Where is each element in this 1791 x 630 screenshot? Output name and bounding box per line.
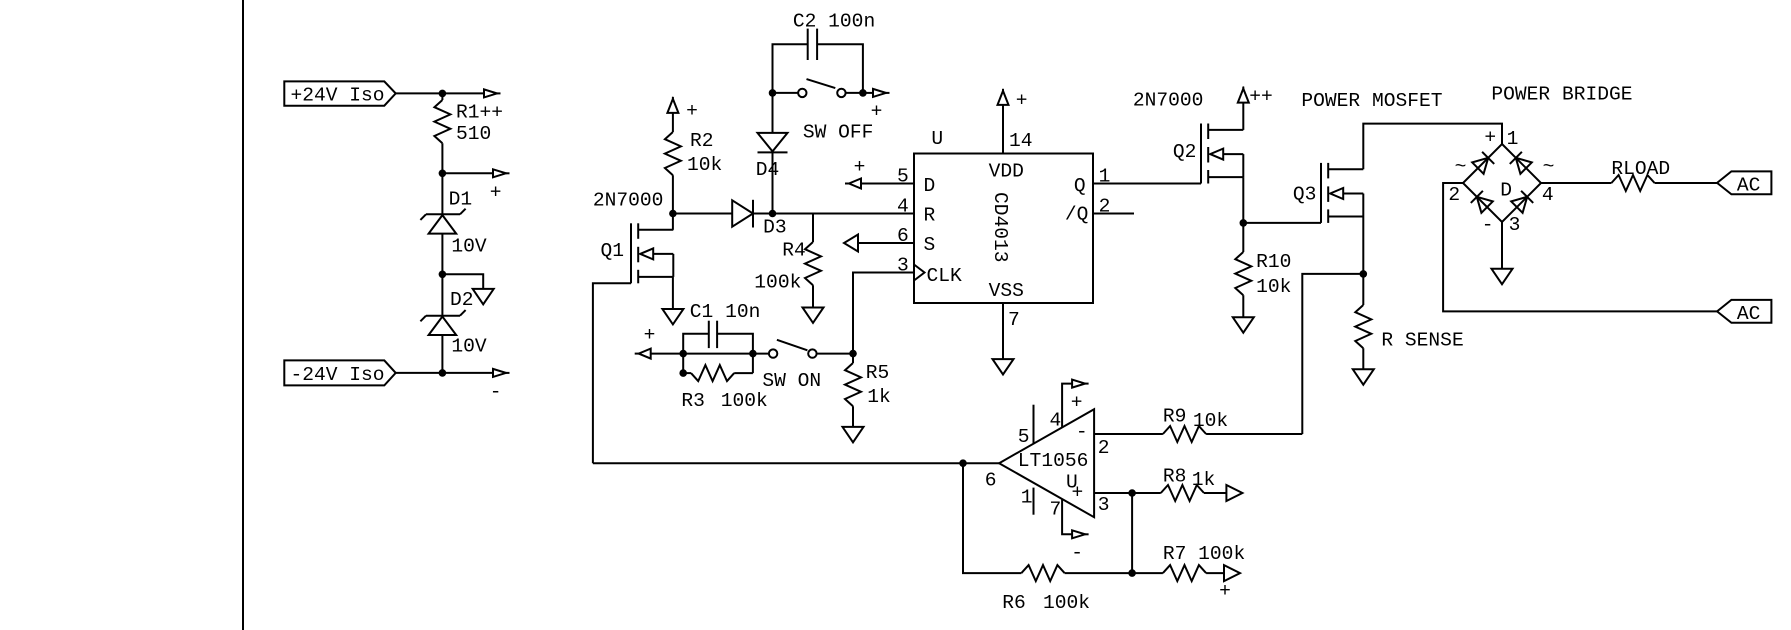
svg-text:7: 7: [1008, 309, 1020, 331]
label Q1: [601, 240, 625, 262]
resistor RLOAD: [1611, 175, 1654, 191]
label 1: [1099, 165, 1111, 187]
svg-text:U: U: [931, 128, 943, 150]
svg-text:5: 5: [897, 165, 909, 187]
label R7 100k: [1163, 543, 1245, 565]
svg-text:-: -: [490, 381, 502, 403]
svg-text:LT1056: LT1056: [1018, 450, 1089, 472]
label +: [1219, 580, 1231, 602]
label 10k: [1193, 410, 1228, 432]
wire: [1362, 217, 1364, 274]
wire: [1065, 572, 1133, 574]
resistor R SENSE: [1355, 305, 1371, 348]
svg-text:10k: 10k: [1193, 410, 1228, 432]
svg-text:+: +: [490, 181, 502, 203]
input arrow pin D: [845, 179, 861, 189]
svg-text:R1++: R1++: [456, 102, 503, 124]
wire: [1302, 274, 1363, 434]
wire pin 14: [1002, 105, 1004, 154]
label R6: [1002, 592, 1026, 614]
wire: [861, 183, 914, 185]
svg-text:R10: R10: [1256, 251, 1291, 273]
svg-text:-: -: [1071, 542, 1083, 564]
wire: [1243, 222, 1321, 224]
svg-text:10V: 10V: [451, 235, 487, 257]
power arrow: [493, 369, 510, 377]
label ~: [1543, 156, 1555, 178]
svg-text:+: +: [1016, 90, 1028, 112]
label D2: [450, 289, 474, 311]
svg-text:4: 4: [1050, 409, 1062, 431]
label 2N7000: [1133, 89, 1204, 111]
svg-text:+: +: [1071, 391, 1083, 413]
svg-text:/Q: /Q: [1065, 203, 1089, 225]
wire: [1242, 223, 1244, 252]
label R1++: [456, 102, 503, 124]
label +: [1072, 481, 1084, 503]
label +: [1016, 90, 1028, 112]
label +: [854, 156, 866, 178]
wire: [1206, 572, 1224, 574]
svg-text:SW ON: SW ON: [762, 370, 821, 392]
wire: [1242, 295, 1244, 317]
net label AC: [1717, 171, 1771, 196]
svg-text:RLOAD: RLOAD: [1611, 158, 1670, 180]
wire: [672, 175, 674, 230]
output arrow: [1226, 485, 1242, 501]
power arrow: [1072, 530, 1089, 538]
label R3: [681, 390, 705, 412]
clock wedge: [914, 265, 925, 281]
wire: [1501, 222, 1503, 269]
svg-text:S: S: [924, 234, 936, 256]
power arrow: [484, 89, 501, 97]
ground: [843, 427, 864, 442]
label D: [924, 175, 936, 197]
label RLOAD: [1611, 158, 1670, 180]
label 1k: [1192, 469, 1216, 491]
net label -24V Iso: [284, 360, 395, 385]
power arrow +: [998, 89, 1009, 105]
ground: [803, 308, 824, 323]
wire: [753, 213, 914, 215]
svg-text:-: -: [1076, 421, 1088, 443]
svg-text:C2 100n: C2 100n: [793, 10, 875, 32]
resistor R1: [434, 100, 450, 143]
power arrow: [873, 89, 890, 97]
resistor R10: [1235, 252, 1251, 295]
wire: [441, 234, 443, 316]
label -: [1071, 542, 1083, 564]
resistor R9: [1163, 426, 1206, 442]
svg-text:R: R: [924, 204, 936, 226]
label 100k: [754, 271, 801, 293]
wire: [396, 92, 484, 94]
svg-text:2: 2: [1098, 437, 1110, 459]
junction: [1240, 219, 1248, 227]
junction: [669, 210, 677, 218]
svg-text:510: 510: [456, 123, 491, 145]
svg-text:SW OFF: SW OFF: [803, 121, 874, 143]
power arrow: [493, 169, 510, 177]
op-amp U1 LT1056: [999, 409, 1094, 517]
resistor R5: [845, 363, 861, 406]
svg-text:D3: D3: [763, 216, 787, 238]
output arrow: [1224, 565, 1240, 581]
label 10V: [451, 335, 487, 357]
svg-text:7: 7: [1050, 498, 1062, 520]
label 7: [1008, 309, 1020, 331]
op-amp U CD4013 box: [914, 154, 1093, 304]
wire: [963, 463, 1021, 573]
svg-text:CLK: CLK: [927, 265, 963, 287]
svg-text:+: +: [1072, 481, 1084, 503]
svg-text:+: +: [1219, 580, 1231, 602]
net label +24V Iso: [284, 81, 395, 106]
label +: [686, 100, 698, 122]
svg-text:R7 100k: R7 100k: [1163, 543, 1245, 565]
bridge diode 4-1: [1510, 152, 1532, 174]
label +: [1071, 391, 1083, 413]
wire: [396, 372, 493, 374]
wire: [1242, 177, 1244, 223]
svg-text:VDD: VDD: [989, 160, 1024, 182]
switch SW ON: [769, 340, 853, 358]
label 100k: [721, 390, 768, 412]
label 510: [456, 123, 491, 145]
label +: [1484, 126, 1496, 148]
ground: [662, 309, 683, 324]
wire: [852, 406, 854, 427]
label 10k: [687, 154, 722, 176]
wire: [673, 213, 732, 215]
svg-text:R8: R8: [1163, 465, 1187, 487]
label 3: [897, 254, 909, 276]
transistor Q1: [631, 223, 673, 283]
power arrow: [1072, 380, 1089, 388]
label C1 10n: [690, 301, 761, 323]
power arrow ++: [1238, 87, 1249, 103]
label POWER BRIDGE: [1491, 83, 1632, 105]
svg-text:R9: R9: [1163, 405, 1187, 427]
label 6: [985, 469, 997, 491]
label VDD: [989, 160, 1024, 182]
label -: [1076, 421, 1088, 443]
svg-text:+: +: [871, 100, 883, 122]
svg-text:D: D: [1500, 179, 1512, 201]
svg-text:R4: R4: [782, 239, 806, 261]
svg-text:+: +: [644, 324, 656, 346]
bridge diode 3-2: [1471, 191, 1493, 213]
bridge diode 3-4: [1511, 191, 1533, 213]
resistor R8: [1161, 485, 1204, 501]
input arrow pin S: [844, 235, 858, 252]
wire: [442, 274, 483, 289]
svg-text:1k: 1k: [1192, 469, 1216, 491]
label R2: [690, 130, 714, 152]
svg-text:10k: 10k: [687, 154, 722, 176]
svg-text:~: ~: [1543, 156, 1555, 178]
svg-text:POWER MOSFET: POWER MOSFET: [1301, 90, 1442, 112]
wire: [772, 93, 774, 133]
svg-text:4: 4: [1542, 184, 1554, 206]
wire pin 7: [1002, 303, 1004, 359]
wire: [772, 152, 774, 213]
label 2: [1098, 437, 1110, 459]
wire: [672, 113, 674, 132]
label +: [490, 181, 502, 203]
junction: [439, 369, 447, 377]
wire pin 2: [1094, 433, 1163, 435]
wire: [1362, 274, 1364, 305]
junction: [679, 350, 687, 358]
wire: [1242, 103, 1244, 130]
wire: [441, 335, 443, 373]
label D3: [763, 216, 787, 238]
label 5: [1018, 426, 1030, 448]
junction: [959, 459, 967, 467]
junction: [859, 89, 867, 97]
wire: [593, 462, 963, 464]
wire: [1362, 348, 1364, 369]
ground: [993, 359, 1014, 374]
svg-text:5: 5: [1018, 426, 1030, 448]
wire: [1132, 492, 1161, 494]
svg-text:D1: D1: [449, 189, 473, 211]
wire: [1655, 182, 1718, 184]
wire: [1132, 572, 1163, 574]
label CLK: [927, 265, 963, 287]
svg-text:CD4013: CD4013: [989, 192, 1011, 263]
svg-text:++: ++: [1249, 85, 1273, 107]
svg-text:2N7000: 2N7000: [1133, 89, 1204, 111]
ground: [1353, 369, 1374, 384]
label 2N7000: [593, 189, 664, 211]
junction: [849, 350, 857, 358]
svg-text:+: +: [686, 100, 698, 122]
label 1k: [867, 386, 891, 408]
svg-text:VSS: VSS: [989, 280, 1024, 302]
svg-text:6: 6: [897, 225, 909, 247]
svg-text:2: 2: [1448, 184, 1460, 206]
svg-text:1k: 1k: [867, 386, 891, 408]
label 4: [1542, 184, 1554, 206]
svg-text:1: 1: [1021, 486, 1033, 508]
svg-text:3: 3: [1509, 214, 1521, 236]
wire: [593, 283, 631, 463]
net label AC: [1717, 300, 1771, 325]
wire pin 2 /Q: [1093, 213, 1134, 215]
label 5: [897, 165, 909, 187]
label R5: [866, 362, 890, 384]
svg-text:D4: D4: [756, 159, 780, 181]
wire pin 7: [1062, 499, 1072, 534]
svg-text:Q2: Q2: [1173, 141, 1197, 163]
svg-text:3: 3: [897, 254, 909, 276]
resistor R3: [691, 365, 734, 381]
wire: [1443, 183, 1717, 311]
bridge D diamond: [1463, 144, 1541, 222]
svg-text:AC: AC: [1737, 174, 1761, 196]
svg-text:+24V Iso: +24V Iso: [291, 84, 385, 106]
svg-text:2N7000: 2N7000: [593, 189, 664, 211]
svg-text:+: +: [1484, 126, 1496, 148]
svg-text:4: 4: [897, 195, 909, 217]
input arrow: [635, 349, 651, 359]
resistor R2: [665, 132, 681, 175]
wire: [812, 214, 814, 243]
capacitor C1: [683, 321, 753, 373]
label 10V: [451, 235, 487, 257]
wire pin 4: [1062, 384, 1072, 428]
wire: [651, 353, 769, 355]
svg-text:10k: 10k: [1256, 276, 1291, 298]
transistor Q3: [1321, 163, 1363, 223]
junction: [1360, 270, 1368, 278]
svg-text:100k: 100k: [1043, 592, 1090, 614]
junction: [1128, 489, 1136, 497]
wire: [1363, 124, 1502, 170]
label U: [931, 128, 943, 150]
junction: [439, 170, 447, 178]
zener diode D1: [420, 209, 465, 234]
label ++: [1249, 85, 1273, 107]
svg-text:-: -: [1482, 214, 1494, 236]
wire pin 6: [963, 462, 999, 464]
resistor R6: [1021, 565, 1064, 581]
transistor Q2: [1201, 124, 1243, 184]
svg-text:POWER BRIDGE: POWER BRIDGE: [1491, 83, 1632, 105]
label 4: [1050, 409, 1062, 431]
capacitor C2: [773, 29, 863, 93]
svg-text:~: ~: [1455, 156, 1467, 178]
junction: [679, 369, 687, 377]
ground: [473, 289, 494, 304]
wire: [734, 372, 753, 374]
junction: [439, 271, 447, 279]
wire: [441, 143, 443, 214]
label 10k: [1256, 276, 1291, 298]
wire: [1204, 492, 1226, 494]
svg-text:R SENSE: R SENSE: [1381, 329, 1463, 351]
label D1: [449, 189, 473, 211]
wire: [683, 372, 691, 374]
svg-text:R5: R5: [866, 362, 890, 384]
label 1: [1507, 128, 1519, 150]
label 3: [1098, 494, 1110, 516]
diode D3: [732, 200, 753, 228]
power arrow +: [667, 97, 678, 113]
label R9: [1163, 405, 1187, 427]
label 4: [897, 195, 909, 217]
wire pin 1 Q: [1093, 183, 1201, 185]
junction: [769, 210, 777, 218]
svg-text:R2: R2: [690, 130, 714, 152]
junction: [769, 89, 777, 97]
wire: [672, 277, 674, 309]
label SW ON: [762, 370, 821, 392]
diode D4: [758, 133, 788, 153]
svg-text:D2: D2: [450, 289, 474, 311]
svg-text:100k: 100k: [754, 271, 801, 293]
label VSS: [989, 280, 1024, 302]
label 1: [1021, 486, 1033, 508]
wire: [812, 285, 814, 307]
label 6: [897, 225, 909, 247]
label ~: [1455, 156, 1467, 178]
wire: [863, 92, 873, 94]
wire: [858, 242, 914, 244]
label 2: [1448, 184, 1460, 206]
wire: [852, 354, 854, 363]
label 7: [1050, 498, 1062, 520]
ground: [1233, 317, 1254, 332]
label /Q: [1065, 203, 1089, 225]
svg-text:Q: Q: [1074, 175, 1086, 197]
wire: [441, 93, 443, 100]
label D: [1500, 179, 1512, 201]
junction: [439, 90, 447, 98]
label POWER MOSFET: [1301, 90, 1442, 112]
junction: [749, 350, 757, 358]
resistor R4: [805, 242, 821, 285]
wire: [1206, 433, 1302, 435]
label +: [644, 324, 656, 346]
wire pin 3: [1094, 492, 1132, 494]
label C2 100n: [793, 10, 875, 32]
ground: [1492, 269, 1513, 284]
svg-text:D: D: [924, 175, 936, 197]
wire: [1131, 493, 1133, 573]
svg-text:R3: R3: [681, 390, 705, 412]
svg-text:AC: AC: [1737, 303, 1761, 325]
label 3: [1509, 214, 1521, 236]
label R8: [1163, 465, 1187, 487]
svg-text:-24V Iso: -24V Iso: [291, 364, 385, 386]
svg-text:1: 1: [1507, 128, 1519, 150]
switch SW OFF: [773, 79, 863, 97]
label -: [490, 381, 502, 403]
label CD4013: [989, 192, 1011, 263]
junction: [1128, 569, 1136, 577]
wire: [1541, 182, 1611, 184]
svg-text:R6: R6: [1002, 592, 1026, 614]
svg-text:6: 6: [985, 469, 997, 491]
svg-text:+: +: [854, 156, 866, 178]
label Q2: [1173, 141, 1197, 163]
svg-text:10V: 10V: [451, 335, 487, 357]
pin 1 bar: [1033, 488, 1035, 515]
label 2: [1099, 195, 1111, 217]
svg-text:Q1: Q1: [601, 240, 625, 262]
label R10: [1256, 251, 1291, 273]
label R SENSE: [1381, 329, 1463, 351]
svg-text:14: 14: [1009, 130, 1033, 152]
svg-text:Q3: Q3: [1293, 183, 1317, 205]
label S: [924, 234, 936, 256]
label 100k: [1043, 592, 1090, 614]
label Q: [1074, 175, 1086, 197]
wire: [442, 172, 493, 174]
label D4: [756, 159, 780, 181]
label R: [924, 204, 936, 226]
label -: [1482, 214, 1494, 236]
zener diode D2: [420, 310, 465, 335]
wire: [853, 273, 914, 354]
bridge diode 2-1: [1472, 152, 1494, 174]
resistor R7: [1163, 565, 1206, 581]
label R4: [782, 239, 806, 261]
